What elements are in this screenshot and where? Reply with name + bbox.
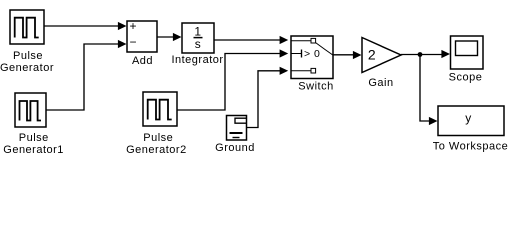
- wire Ground to Switch in3: [247, 71, 284, 128]
- arrowhead To Workspace in: [429, 117, 438, 125]
- arrowhead Switch in2: [280, 49, 289, 57]
- pulse generator1 PG1 box: [15, 93, 46, 127]
- arrowhead Integrator in: [173, 33, 182, 41]
- arrowhead Scope in: [441, 50, 450, 58]
- pulse generator1 PG1 icon: [20, 101, 42, 121]
- arrowhead Gain in: [353, 51, 362, 59]
- switch in1 stub: [291, 40, 311, 42]
- svg-text:Ground: Ground: [215, 142, 255, 154]
- svg-text:−: −: [130, 35, 138, 49]
- svg-text:To Workspace: To Workspace: [433, 141, 509, 153]
- svg-text:+: +: [130, 19, 138, 33]
- switch in1 port square: [311, 38, 316, 43]
- svg-text:Switch: Switch: [298, 81, 333, 93]
- ground icon: [235, 118, 247, 123]
- to workspace box: [438, 106, 504, 136]
- arrowhead Switch in1: [280, 36, 289, 44]
- wire Switch to Gain: [333, 54, 355, 56]
- svg-text:Pulse: Pulse: [143, 132, 173, 144]
- gain triangle: [362, 38, 401, 73]
- svg-text:Generator1: Generator1: [3, 144, 64, 156]
- switch block box: [291, 36, 333, 79]
- wire Add to Integrator: [157, 36, 175, 38]
- svg-text:Gain: Gain: [368, 77, 393, 89]
- switch in3 stub: [291, 70, 311, 72]
- svg-text:s: s: [195, 37, 202, 51]
- svg-text:Pulse: Pulse: [19, 132, 49, 144]
- wire junction to To Workspace: [420, 55, 431, 122]
- arrowhead Add in2: [118, 40, 127, 48]
- svg-text:> 0: > 0: [304, 48, 320, 60]
- switch arm diagonal: [316, 43, 333, 55]
- wire Gain to Scope: [401, 54, 444, 56]
- ground block box: [227, 116, 247, 141]
- wire PG2 to Switch in2: [177, 54, 281, 111]
- pulse generator2 PG2 icon: [148, 100, 172, 120]
- scope box: [451, 36, 484, 69]
- scope screen: [456, 41, 478, 56]
- svg-text:Integrator: Integrator: [171, 54, 223, 66]
- wire PG1 to Add in2: [46, 44, 119, 110]
- svg-text:Add: Add: [132, 55, 153, 67]
- svg-text:Scope: Scope: [449, 72, 483, 84]
- pulse generator PG box: [10, 10, 44, 44]
- adder U-Add box: [127, 21, 157, 52]
- junction dot: [418, 52, 423, 57]
- pulse generator PG icon: [15, 18, 39, 38]
- svg-text:Generator: Generator: [0, 62, 54, 74]
- svg-text:y: y: [465, 111, 472, 125]
- svg-text:Pulse: Pulse: [13, 50, 43, 62]
- switch in3 port square: [311, 68, 316, 73]
- integrator box: [182, 23, 214, 53]
- switch in2 stub: [291, 53, 301, 55]
- arrowhead Add in1: [118, 22, 127, 30]
- arrowhead Switch in3: [280, 67, 289, 75]
- svg-text:2: 2: [368, 47, 376, 63]
- wire Integrator to Switch in1: [214, 39, 282, 41]
- wire PG to Add in1: [44, 25, 120, 27]
- switch threshold tick: [301, 50, 303, 58]
- pulse generator2 PG2 box: [143, 92, 177, 126]
- svg-text:Generator2: Generator2: [126, 144, 187, 156]
